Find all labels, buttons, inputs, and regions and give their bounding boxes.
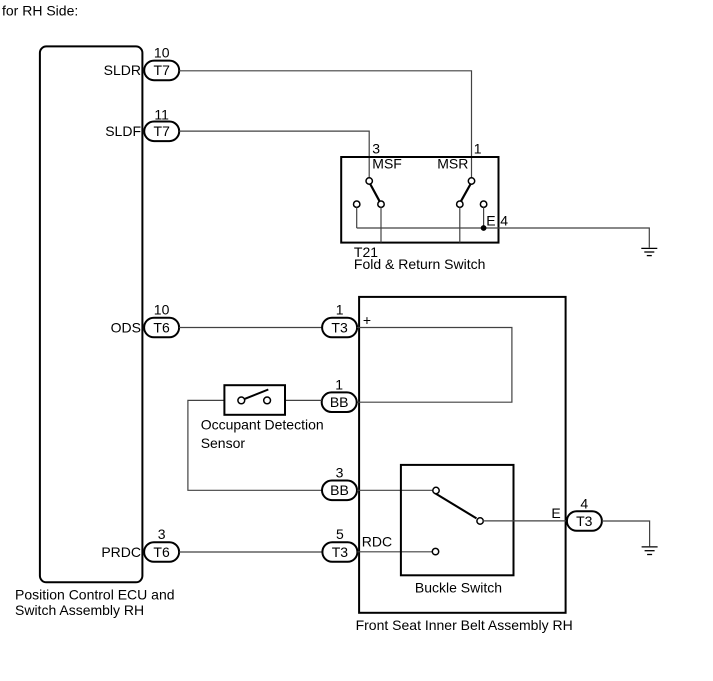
svg-text:3: 3 [158,526,166,542]
pin number 1 (MSR) [474,141,482,157]
pin number 3 (BB) [336,465,344,481]
pin number 3 (MSF) [372,141,380,157]
Front Seat Inner Belt Assembly RH box [356,297,573,633]
switch MSF lever [370,184,379,201]
title: for RH Side: [2,2,78,18]
ground 1 [641,248,657,255]
svg-text:BB: BB [330,394,349,410]
label MSR [437,156,468,172]
svg-text:Fold & Return Switch: Fold & Return Switch [354,256,486,272]
wire MSF bottom-right contact to box bottom [380,207,382,242]
label MSF [372,156,402,172]
svg-text:BB: BB [330,482,349,498]
switch MSF top contact [366,178,372,184]
pin number 11 (SLDF) [154,106,169,122]
wire PRDC T6 to T3 [179,551,322,553]
connector T6 pin 3 (PRDC) [144,542,179,562]
svg-text:1: 1 [474,141,482,157]
label plus [363,312,371,328]
svg-text:Switch Assembly RH: Switch Assembly RH [15,602,144,618]
wire buckle switch to T3 pin 4 E [483,520,567,522]
switch MSR lever [461,184,471,201]
Occupant Detection Sensor box [201,385,324,451]
ODS sensor left contact [238,397,245,404]
switch MSR bottom-right contact [480,201,486,207]
wire Occupant Detection Sensor loop to BB pin3 [188,400,322,490]
svg-text:E: E [486,212,495,228]
switch MSR bottom-left contact [457,201,463,207]
pin number 3 (PRDC) [158,526,166,542]
svg-text:11: 11 [154,106,169,122]
wire Occupant Detection Sensor to BB pin1 [286,399,322,401]
pin number 10 (ODS) [154,302,170,318]
pin number 1 (BB) [335,376,343,392]
svg-text:T3: T3 [331,319,348,335]
svg-text:10: 10 [154,302,170,318]
wire SLDF to MSF [179,131,369,178]
ECU box: Position Control ECU and Switch Assembly RH [15,46,175,617]
wire T3 pin5 to buckle switch RDC contact [357,551,432,553]
ODS sensor lever [245,390,269,399]
svg-text:Occupant Detection: Occupant Detection [201,416,324,432]
svg-text:MSF: MSF [372,156,402,172]
pin number 10 (SLDR) [154,45,170,61]
switch MSF bottom-right contact [378,201,384,207]
pin label E (fold box) [486,212,495,228]
wire SLDR to MSR [179,71,471,178]
connector BB pin 1 [322,392,357,412]
svg-text:1: 1 [335,376,343,392]
svg-text:T3: T3 [332,544,349,560]
wire MSR bottom-right contact to junction [483,207,485,228]
connector T3 pin 4 (E) [567,511,602,531]
buckle switch moving contact [477,518,483,524]
svg-text:MSR: MSR [437,156,468,172]
svg-text:SLDR: SLDR [104,62,141,78]
pin label SLDF [105,123,141,139]
connector T6 pin 10 (ODS) [144,318,179,338]
connector T7 pin 11 (SLDF) [144,122,179,142]
wire T3 pin1 loop to BB pin1 [357,328,512,403]
switch MSR top contact [468,178,474,184]
wire T3 pin 4 to ground 2 [602,521,650,546]
svg-text:4: 4 [500,212,508,228]
svg-text:SLDF: SLDF [105,123,141,139]
svg-text:ODS: ODS [111,319,141,335]
wire ground bus E4 to ground 1 [357,228,650,248]
buckle switch top contact [433,487,439,493]
svg-text:+: + [363,312,371,328]
pin number 4 (fold box) [500,212,508,228]
pin number 1 (T3 plus) [336,302,344,318]
svg-text:T3: T3 [576,513,593,529]
svg-text:PRDC: PRDC [101,544,141,560]
wire BB pin3 to buckle switch [357,489,432,491]
pin number 4 (T3 E) [580,495,588,511]
pin label SLDR [104,62,141,78]
ODS sensor right contact [264,397,271,404]
wire MSF bottom-left contact to ground bus [356,207,358,228]
svg-text:Buckle Switch: Buckle Switch [415,580,502,596]
pin label RDC [362,534,392,550]
ground 2 [642,547,658,555]
pin label E (belt box) [551,505,560,521]
wire ODS T6 to T3 [179,327,322,329]
svg-text:Front Seat Inner Belt Assembly: Front Seat Inner Belt Assembly RH [356,617,573,633]
svg-text:T7: T7 [154,123,171,139]
Buckle Switch box [401,465,514,596]
svg-text:T6: T6 [153,544,170,560]
pin label ODS [111,319,141,335]
svg-text:4: 4 [580,495,588,511]
svg-text:10: 10 [154,45,170,61]
buckle switch lever [435,493,477,518]
switch MSF bottom-left contact [354,201,360,207]
pin label PRDC [101,544,141,560]
Fold & Return Switch box T21 [341,157,498,272]
connector BB pin 3 [322,481,357,501]
svg-text:5: 5 [336,526,344,542]
svg-text:1: 1 [336,302,344,318]
svg-text:Sensor: Sensor [201,435,246,451]
junction E [481,225,487,231]
svg-text:Position Control ECU and: Position Control ECU and [15,586,175,602]
svg-text:3: 3 [336,465,344,481]
pin number 5 (T3 RDC) [336,526,344,542]
connector T7 pin 10 (SLDR) [144,61,179,81]
svg-text:T6: T6 [153,319,170,335]
svg-text:T7: T7 [154,62,171,78]
svg-text:3: 3 [372,141,380,157]
wire MSR bottom-left contact to box bottom [459,207,461,242]
connector T3 pin 1 (plus) [322,318,357,338]
svg-text:RDC: RDC [362,534,392,550]
svg-text:E: E [551,505,560,521]
connector T3 pin 5 (RDC) [322,542,357,562]
buckle switch RDC contact [432,548,438,554]
svg-text:for RH Side:: for RH Side: [2,2,78,18]
